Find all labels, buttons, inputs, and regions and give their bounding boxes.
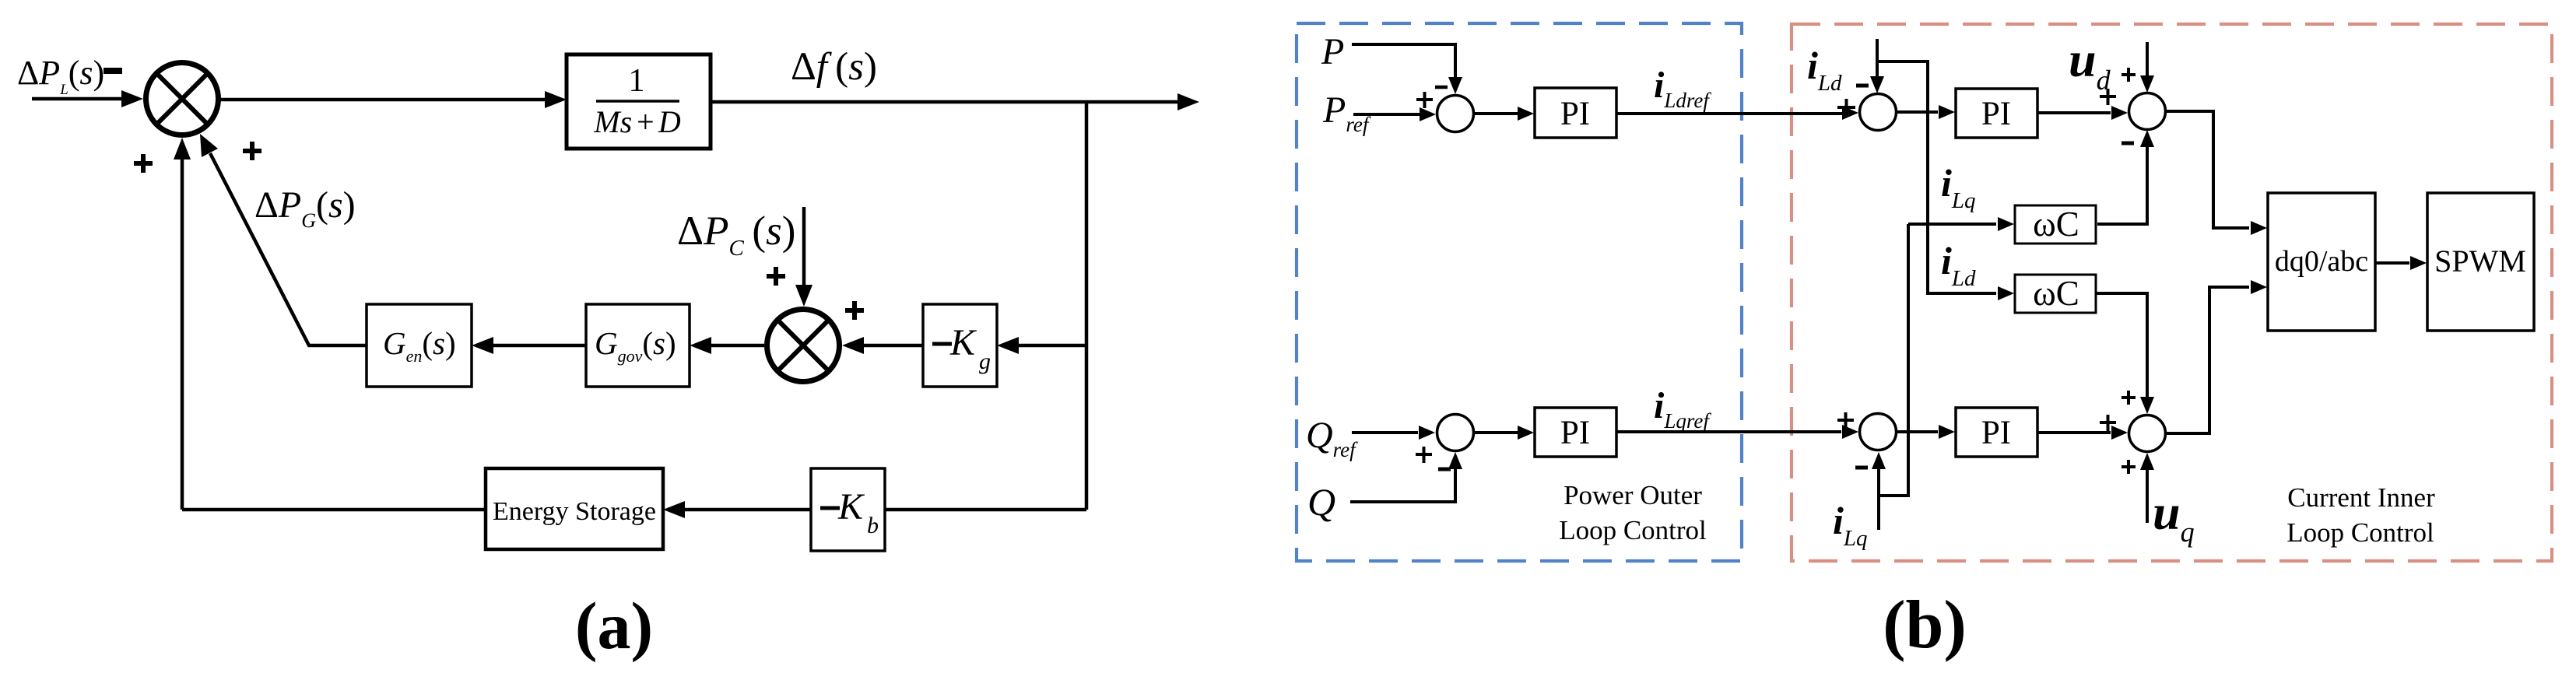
summing circle SQ2 bbox=[1860, 414, 1897, 450]
svg-text:PI: PI bbox=[1981, 96, 2011, 132]
svg-text:Δf (s): Δf (s) bbox=[791, 45, 877, 89]
plus right of ud bbox=[2122, 68, 2136, 82]
svg-text:ωC: ωC bbox=[2033, 205, 2079, 244]
plus right of S2 bbox=[845, 301, 864, 320]
wire iLq feed into wC1 bbox=[1908, 223, 1996, 226]
block 1/(Ms+D) bbox=[567, 54, 711, 149]
wire branch vertical main feedback bbox=[1085, 102, 1089, 510]
wire PI3 to SQ2 bbox=[1616, 430, 1841, 433]
wire wC2 output down into SU2 top bbox=[2096, 293, 2147, 398]
plus bottom-left of SU2 bbox=[2122, 460, 2136, 474]
wire S2 to Ggov bbox=[710, 344, 764, 348]
wire Gen to S1 (bend + diagonal) bbox=[210, 153, 367, 345]
wire iLd branch to wC2 bbox=[1877, 61, 1996, 293]
summing circle SU2 bbox=[2129, 415, 2166, 452]
wire Q into SQ1 bottom bbox=[1350, 468, 1455, 502]
svg-text:P: P bbox=[1321, 31, 1344, 72]
svg-text:SPWM: SPWM bbox=[2434, 244, 2526, 279]
svg-text:PI: PI bbox=[1560, 96, 1590, 132]
wire S1 to block 1/(Ms+D) bbox=[219, 98, 546, 102]
svg-text:Q: Q bbox=[1307, 480, 1335, 524]
wire Qref to SQ1 bbox=[1352, 431, 1418, 434]
plus below-left of SQ1 bbox=[1416, 447, 1432, 463]
svg-text:(a): (a) bbox=[575, 588, 653, 663]
svg-text:g: g bbox=[979, 349, 991, 374]
plus left of SU2 bbox=[2100, 415, 2116, 431]
label deltaPL(s) input bbox=[17, 54, 104, 98]
svg-text:PI: PI bbox=[1981, 415, 2011, 451]
summing junction S2 bbox=[767, 310, 840, 382]
svg-text:Loop Control: Loop Control bbox=[1559, 515, 1707, 545]
wire bottom feedback horizontal right segment bbox=[886, 508, 1086, 512]
block PI1 bbox=[1535, 88, 1616, 138]
minus at SB1 top bbox=[1856, 84, 1869, 88]
plus above S2 bbox=[767, 267, 785, 286]
wire iLq vertical from bottom bbox=[1879, 224, 1908, 530]
wire branch to -Kg bbox=[1017, 344, 1086, 348]
plus at SP1 left bbox=[1416, 92, 1433, 108]
minus below SQ2 bbox=[1855, 466, 1868, 470]
wire Pref to SP1 bbox=[1353, 113, 1420, 116]
svg-text:Power Outer: Power Outer bbox=[1563, 480, 1702, 510]
minus below SU1 bbox=[2122, 142, 2134, 145]
wire PI4 to SU2 bbox=[2037, 431, 2111, 434]
block PI2 bbox=[1956, 89, 2037, 138]
wire -Kb to Energy Storage bbox=[683, 508, 811, 512]
svg-text:K: K bbox=[949, 322, 977, 363]
minus at SP1 top bbox=[1435, 86, 1448, 89]
wire block output to right arrow bbox=[711, 100, 1177, 104]
wire SP1 to PI1 bbox=[1474, 112, 1518, 115]
wire PI2 to SU1 bbox=[2037, 111, 2111, 114]
svg-text:PI: PI bbox=[1560, 415, 1590, 451]
block PI4 bbox=[1956, 408, 2037, 457]
svg-text:b: b bbox=[867, 513, 879, 538]
block Energy Storage bbox=[486, 468, 663, 549]
wire SQ2 to PI4 bbox=[1897, 430, 1938, 433]
wire -Kg to summing junction S2 bbox=[862, 344, 923, 348]
wire wC1 output up into SU1 bottom bbox=[2097, 146, 2147, 224]
svg-text:Current Inner: Current Inner bbox=[2287, 482, 2435, 513]
wire P to SP1 top bbox=[1352, 44, 1455, 78]
summing circle SU1 bbox=[2129, 93, 2166, 130]
block wC2 bbox=[2015, 274, 2096, 313]
svg-text:Energy Storage: Energy Storage bbox=[493, 497, 656, 526]
wire measurement into SU1 top bbox=[2146, 42, 2149, 77]
plus at SB1 left bbox=[1837, 99, 1855, 117]
wire iLd measurement into SB1 top bbox=[1876, 39, 1879, 78]
svg-text:dq0/abc: dq0/abc bbox=[2275, 245, 2368, 278]
wire SQ1 to PI3 bbox=[1474, 431, 1518, 434]
plus sign right of S1 (for deltaPG) bbox=[243, 142, 261, 160]
wire uq into SU2 bottom bbox=[2146, 468, 2149, 523]
plus top-left of SU2 bbox=[2122, 391, 2136, 405]
block wC1 bbox=[2015, 205, 2096, 244]
svg-text:(b): (b) bbox=[1883, 587, 1967, 663]
plus left of SU1 bbox=[2100, 89, 2116, 105]
wire dq0/abc to SPWM bbox=[2375, 261, 2409, 265]
block PI3 bbox=[1535, 408, 1616, 457]
plus left of SQ2 bbox=[1837, 412, 1854, 429]
svg-text:Loop Control: Loop Control bbox=[2286, 517, 2434, 548]
block dq0/abc bbox=[2268, 193, 2375, 331]
summing circle SQ1 bbox=[1437, 415, 1474, 451]
wire iLq arrow into SQ2 bottom bbox=[1877, 467, 1880, 496]
wire input arrow into summing junction S1 bbox=[32, 97, 123, 101]
label Power Outer Loop Control bbox=[1559, 480, 1707, 545]
wire SU2 output to dq0/abc lower input bbox=[2166, 287, 2249, 433]
minus sign for input bbox=[104, 68, 122, 74]
block -Kb bbox=[811, 468, 885, 551]
summing circle SB1 bbox=[1860, 94, 1897, 131]
wire PI1 to SB1 bbox=[1616, 112, 1843, 115]
blue dashed box Power Outer Loop bbox=[1297, 23, 1742, 561]
wire arrow into S2 top bbox=[802, 207, 806, 286]
summing circle SP1 bbox=[1437, 96, 1474, 132]
wire SU1 output to dq0/abc upper input bbox=[2166, 111, 2249, 228]
block Ggov(s) bbox=[586, 304, 690, 387]
svg-text:1: 1 bbox=[629, 63, 645, 99]
block -Kg bbox=[923, 304, 997, 387]
block Gen(s) bbox=[367, 304, 472, 387]
svg-text:ωC: ωC bbox=[2033, 274, 2079, 313]
wire Energy Storage to left vertical bbox=[182, 508, 486, 512]
svg-text:K: K bbox=[837, 486, 865, 528]
block SPWM bbox=[2427, 193, 2534, 331]
svg-text:Ms + D: Ms + D bbox=[593, 104, 681, 139]
wire SB1 to PI2 bbox=[1897, 110, 1938, 114]
wire vertical arrow into S1 bottom bbox=[181, 157, 184, 510]
wire Ggov to Gen bbox=[492, 344, 586, 348]
red dashed box Current Inner Loop bbox=[1792, 24, 2552, 561]
minus at SQ1 bottom bbox=[1438, 468, 1451, 471]
summing junction S1 bbox=[146, 63, 219, 135]
label Current Inner Loop Control bbox=[2286, 482, 2435, 548]
plus sign below-left of S1 bbox=[134, 154, 153, 173]
